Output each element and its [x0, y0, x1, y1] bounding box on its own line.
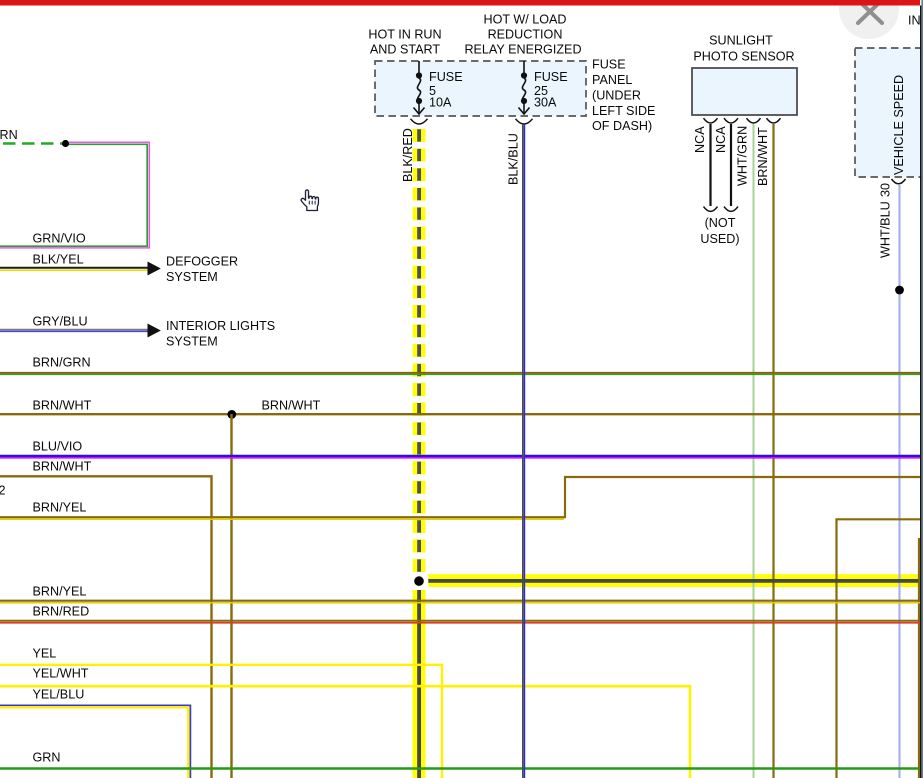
svg-text:FUSE: FUSE	[592, 58, 626, 72]
svg-text:30: 30	[879, 183, 893, 197]
svg-text:BRN/WHT: BRN/WHT	[33, 460, 92, 474]
sunlight photo sensor box	[692, 68, 797, 115]
svg-text:YEL: YEL	[33, 647, 57, 661]
svg-text:30A: 30A	[534, 96, 557, 110]
svg-text:BLK/YEL: BLK/YEL	[33, 253, 84, 267]
svg-text:SYSTEM: SYSTEM	[166, 270, 218, 284]
svg-text:BRN/WHT: BRN/WHT	[262, 399, 321, 413]
svg-text:BLK/RED: BLK/RED	[401, 128, 415, 182]
svg-text:BRN/YEL: BRN/YEL	[33, 501, 87, 515]
wire BLK vertical at right edge	[920, 6, 922, 778]
svg-text:PANEL: PANEL	[592, 73, 632, 87]
wire GRN dashed	[3, 142, 62, 144]
wire BLK/BLU vertical	[522, 124, 524, 778]
highlighted wire dark core horizontal (on top)	[428, 579, 918, 583]
svg-text:BRN/WHT: BRN/WHT	[756, 127, 770, 186]
wire NCA stub 1	[709, 124, 711, 206]
highlighted BLK/RED wire yellow band (vertical, below junction)	[413, 590, 426, 778]
connector arc below vehicle speed box	[892, 179, 906, 184]
wire BRN/WHT vertical from junction	[230, 414, 232, 778]
svg-text:WHT/GRN: WHT/GRN	[736, 126, 750, 186]
svg-text:BRN/GRN: BRN/GRN	[33, 356, 91, 370]
svg-text:PHOTO SENSOR: PHOTO SENSOR	[693, 50, 794, 64]
node highlighted wire junction dot	[414, 576, 424, 586]
svg-text:BRN/YEL: BRN/YEL	[33, 585, 87, 599]
svg-text:WHT/BLU: WHT/BLU	[879, 201, 893, 258]
highlighted wire yellow band (horizontal)	[428, 574, 918, 587]
wire GRN	[0, 767, 920, 770]
svg-text:OF DASH): OF DASH)	[592, 119, 652, 133]
svg-text:GRN/VIO: GRN/VIO	[33, 232, 86, 246]
svg-text:REDUCTION: REDUCTION	[488, 28, 563, 42]
connector arc NCA stub 2 end	[724, 207, 738, 212]
svg-text:USED): USED)	[700, 232, 739, 246]
close button X icon	[858, 0, 882, 23]
svg-text:HOT W/ LOAD: HOT W/ LOAD	[483, 13, 566, 27]
node GRN junction dot	[62, 140, 69, 147]
arrow to interior lights system	[148, 324, 161, 338]
svg-text:SUNLIGHT: SUNLIGHT	[709, 34, 773, 48]
top red bar	[0, 0, 920, 6]
svg-text:2: 2	[0, 484, 6, 498]
svg-text:GRY/BLU: GRY/BLU	[33, 315, 88, 329]
label FUSE PANEL (UNDER LEFT SIDE OF DASH)	[592, 58, 655, 134]
svg-text:(UNDER: (UNDER	[592, 88, 641, 102]
connector arcs below sensor	[704, 118, 781, 123]
svg-text:NCA: NCA	[693, 126, 707, 153]
svg-text:YEL/BLU: YEL/BLU	[33, 688, 85, 702]
svg-text:LEFT SIDE: LEFT SIDE	[592, 104, 655, 118]
node BRN/WHT junction dot	[227, 410, 236, 419]
highlighted BLK/RED wire yellow dashed band (vertical, above junction)	[413, 129, 426, 572]
svg-text:VEHICLE SPEED: VEHICLE SPEED	[892, 75, 906, 175]
wire YEL/BLU (turns down)	[0, 705, 190, 778]
wire YEL (turns down)	[0, 665, 442, 778]
node WHT/BLU junction dot	[895, 286, 904, 295]
wire WHT/GRN vertical	[753, 124, 755, 778]
wire BRN/YEL (jogs up at x=565)	[0, 477, 920, 517]
wire WHT/BLU vertical	[898, 185, 900, 778]
wire GRY/BLU	[0, 329, 149, 331]
connector arc below fuse F25	[516, 119, 533, 124]
wire BRN/WHT horizontal	[0, 413, 920, 415]
fuse F25 30A	[519, 61, 530, 114]
svg-text:BLU/VIO: BLU/VIO	[33, 440, 83, 454]
highlighted BLK/RED wire dark core (vertical, below junction)	[417, 590, 421, 778]
svg-text:GRN: GRN	[33, 751, 61, 765]
wire BRN/YEL right L-shape	[837, 519, 921, 778]
svg-text:(NOT: (NOT	[705, 216, 736, 230]
svg-text:AND START: AND START	[370, 43, 441, 57]
svg-text:SYSTEM: SYSTEM	[166, 335, 218, 349]
mouse cursor	[301, 190, 318, 211]
wire BRN/YEL short vertical at right edge	[918, 538, 920, 778]
fuse panel box	[375, 61, 586, 116]
wire BLK/YEL	[0, 267, 149, 269]
wire GRN/VIO loop	[0, 142, 149, 248]
wire BLU/VIO	[0, 455, 920, 457]
fuse F5 10A	[414, 61, 425, 114]
arrow to defogger system	[148, 262, 161, 276]
wire BRN/WHT vertical (sensor)	[772, 124, 774, 778]
svg-text:BRN/RED: BRN/RED	[33, 605, 90, 619]
svg-text:FUSE: FUSE	[429, 70, 463, 84]
highlighted BLK/RED wire dark dashed core (vertical, above junction)	[417, 129, 421, 572]
wire NCA stub 2	[730, 124, 732, 206]
svg-text:IN: IN	[908, 14, 921, 28]
svg-text:BRN/WHT: BRN/WHT	[33, 399, 92, 413]
svg-text:FUSE: FUSE	[534, 70, 568, 84]
right panel edge	[921, 0, 923, 778]
wire BRN/YEL 2	[0, 600, 920, 602]
wire BRN/WHT 2 (turns down)	[0, 476, 212, 778]
svg-text:DEFOGGER: DEFOGGER	[166, 255, 238, 269]
wire YEL/WHT (turns down)	[0, 686, 690, 778]
wire BRN/GRN	[0, 372, 920, 374]
svg-text:HOT IN RUN: HOT IN RUN	[368, 28, 441, 42]
wire BRN/RED	[0, 620, 920, 622]
svg-text:RELAY ENERGIZED: RELAY ENERGIZED	[464, 43, 581, 57]
connector arc below fuse F5	[411, 119, 428, 124]
svg-text:RN: RN	[0, 128, 18, 142]
svg-text:BLK/BLU: BLK/BLU	[507, 133, 521, 185]
vehicle speed box	[855, 48, 923, 177]
svg-text:YEL/WHT: YEL/WHT	[33, 667, 89, 681]
svg-text:10A: 10A	[429, 96, 452, 110]
svg-text:INTERIOR LIGHTS: INTERIOR LIGHTS	[166, 319, 275, 333]
close button circle	[839, 0, 899, 39]
svg-text:NCA: NCA	[714, 126, 728, 153]
connector arc NCA stub 1 end	[704, 207, 718, 212]
